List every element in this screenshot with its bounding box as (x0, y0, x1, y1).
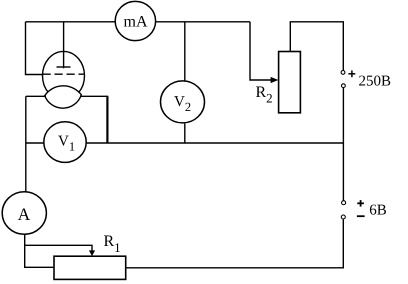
tube cathode/filament (45, 86, 82, 108)
voltmeter V2 (161, 81, 205, 123)
plus sign at 250V (348, 70, 355, 77)
resistor R1 (rheostat box) (54, 256, 126, 279)
svg-text:250В: 250В (359, 73, 392, 89)
wire: anode lead (63, 22, 65, 69)
wire: V2 bottom lead (184, 124, 186, 144)
plus sign at 6V (357, 200, 364, 207)
wire: right rail between supplies (342, 88, 344, 201)
wire: V2 top lead (184, 22, 186, 82)
svg-text:mA: mA (124, 14, 148, 31)
wire: junction drop to middle rail (106, 96, 108, 143)
wire: cathode left lead (26, 95, 46, 97)
terminal: 250V plus (341, 71, 345, 75)
tube grid (dashed) (43, 73, 85, 75)
wire: bottom rail from R1 to 6V terminal (126, 219, 344, 268)
terminal: 6V plus (342, 201, 346, 205)
wire: R2 top lead over to 250V terminal (290, 22, 343, 71)
tube anode bar (57, 66, 71, 68)
wire: middle rail (26, 142, 343, 144)
wire: branch to R1 wiper (25, 245, 92, 251)
arrowhead of R2 wiper (271, 77, 279, 83)
wire: cathode right lead (80, 95, 108, 97)
resistor R2 (potentiometer box) (279, 52, 301, 113)
voltmeter V1 (44, 122, 86, 163)
wire: top rail from left corner to R2 wiper drop (26, 21, 251, 23)
wire: left rail down to ammeter (25, 96, 27, 235)
ammeter A (2, 192, 46, 235)
tube U1 envelope (43, 51, 85, 100)
svg-text:6В: 6В (369, 202, 387, 218)
wire: left vertical down to grid lead (26, 22, 44, 75)
wire: ammeter bottom lead with branch (25, 235, 54, 267)
arrowhead of R1 wiper (89, 250, 95, 256)
minus sign at 6V (357, 215, 365, 217)
svg-text:A: A (18, 204, 31, 224)
terminal: 6V minus (341, 215, 345, 219)
milliammeter mA (115, 1, 155, 40)
terminal: 250V minus side (342, 84, 346, 88)
wire: drop from top rail to R2 wiper (250, 22, 272, 80)
